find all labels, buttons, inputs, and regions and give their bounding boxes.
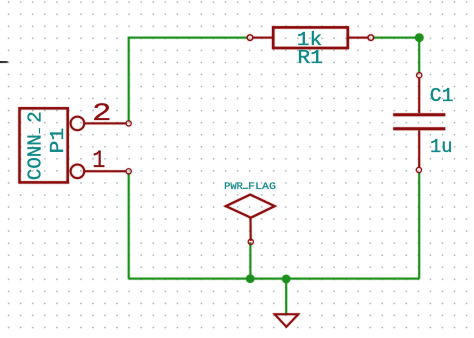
wire ground rail to pin1 [128, 174, 130, 279]
wire C1 bottom to ground rail [418, 173, 420, 279]
connector P1 body [20, 108, 85, 182]
sheet border mark [0, 61, 8, 63]
svg-text:2: 2 [92, 99, 112, 128]
junction at R1/C1 node [415, 33, 424, 42]
svg-text:1: 1 [92, 146, 105, 175]
wire ground symbol stem [285, 279, 287, 314]
wire node to C1 top [418, 38, 420, 73]
pin 1 of P1 [84, 169, 131, 174]
svg-text:R1: R1 [297, 47, 322, 69]
svg-text:1u: 1u [430, 136, 453, 158]
value CONN_2 [24, 111, 46, 180]
wire ground rail [129, 278, 420, 280]
ground symbol [275, 314, 299, 327]
pin 2 of P1 [84, 121, 131, 126]
junction at PWR_FLAG [246, 274, 255, 283]
svg-text:P1: P1 [47, 128, 69, 154]
svg-text:2: 2 [24, 111, 46, 123]
wire pin2 to resistor [129, 38, 247, 122]
wire resistor to output node [374, 37, 419, 39]
label PWR_FLAG [224, 181, 276, 193]
PWR_FLAG symbol [226, 195, 275, 245]
capacitor C1 [393, 73, 445, 173]
svg-text:FLAG: FLAG [248, 181, 276, 193]
junction at ground stem [282, 275, 291, 284]
resistor R1 [247, 27, 373, 48]
svg-text:CONN: CONN [24, 134, 46, 180]
svg-text:C1: C1 [430, 85, 454, 107]
svg-text:PWR: PWR [224, 181, 243, 193]
wire PWR_FLAG stem [249, 242, 251, 278]
